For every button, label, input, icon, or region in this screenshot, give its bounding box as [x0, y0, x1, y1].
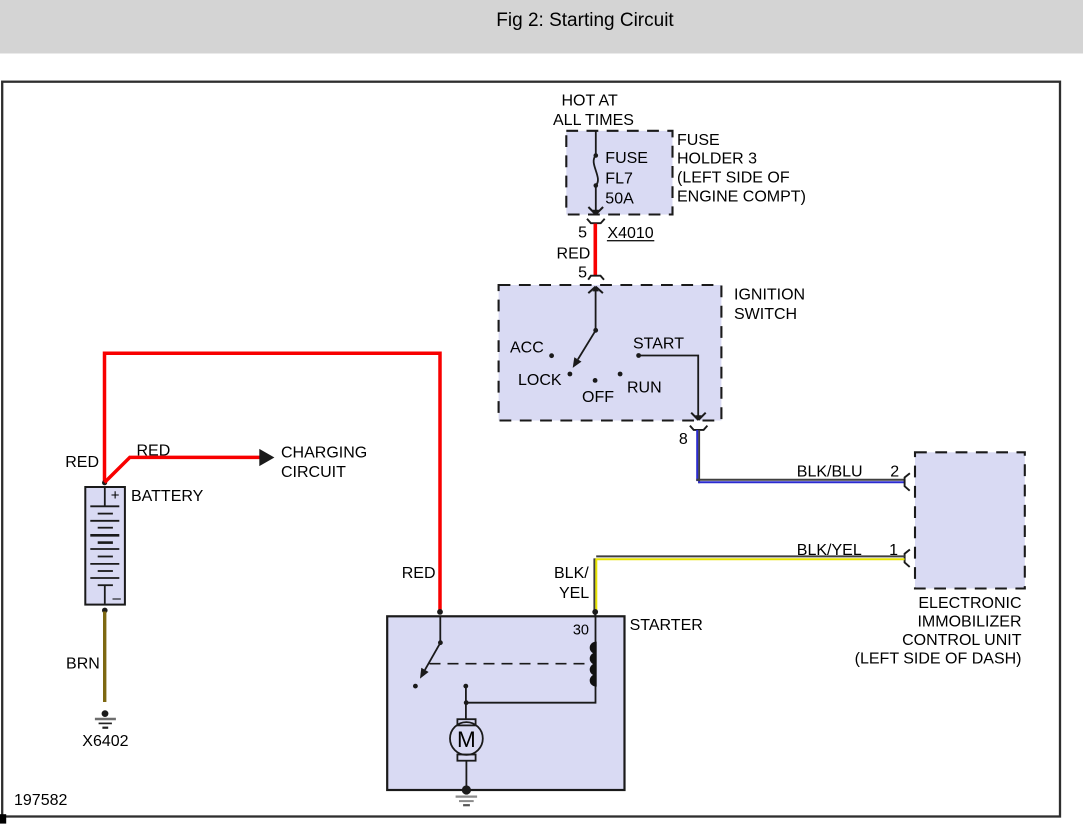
starter ground: [462, 785, 471, 794]
svg-text:ENGINE COMPT): ENGINE COMPT): [677, 188, 806, 205]
svg-text:8: 8: [679, 431, 688, 448]
wire contact to motor: [465, 686, 467, 719]
node ACC: [549, 353, 554, 358]
fuse holder 3 box: [566, 131, 672, 215]
relay fixed contact: [413, 684, 418, 689]
svg-text:HOT AT: HOT AT: [562, 93, 619, 110]
ground X6402: [102, 710, 109, 717]
svg-text:RED: RED: [557, 245, 591, 262]
motor M: [457, 719, 475, 725]
wire RED to charging circuit: [105, 457, 260, 482]
svg-text:X6402: X6402: [82, 733, 128, 750]
pin 1 cup: [905, 550, 910, 567]
svg-text:RED: RED: [65, 454, 99, 471]
svg-text:X4010: X4010: [607, 225, 653, 242]
connector X4010 cup: [587, 219, 605, 224]
svg-text:YEL: YEL: [559, 585, 589, 602]
charging circuit arrow: [259, 449, 274, 466]
svg-text:+: +: [111, 487, 120, 504]
svg-text:ELECTRONIC: ELECTRONIC: [918, 595, 1021, 612]
wire RED fuse to ignition: [593, 224, 597, 276]
node battery negative: [102, 608, 108, 614]
ignition input cup: [588, 276, 604, 280]
svg-text:HOLDER 3: HOLDER 3: [677, 151, 757, 168]
svg-text:M: M: [457, 727, 476, 752]
svg-text:BRN: BRN: [66, 656, 100, 673]
ignition input arrow: [588, 287, 603, 294]
svg-text:2: 2: [890, 464, 899, 481]
svg-text:–: –: [113, 590, 122, 607]
relay lever: [425, 643, 441, 670]
svg-text:5: 5: [578, 265, 587, 282]
svg-text:ALL TIMES: ALL TIMES: [553, 112, 634, 129]
svg-text:BATTERY: BATTERY: [131, 488, 204, 505]
node motor junction: [464, 700, 469, 705]
frame corner mark: [0, 814, 6, 823]
svg-text:(LEFT SIDE OF DASH): (LEFT SIDE OF DASH): [855, 650, 1022, 667]
svg-text:CHARGING: CHARGING: [281, 444, 367, 461]
svg-text:IGNITION: IGNITION: [734, 287, 805, 304]
node RUN: [618, 372, 623, 377]
svg-text:ACC: ACC: [510, 340, 544, 357]
wire RED battery loop: [105, 353, 441, 610]
svg-text:197582: 197582: [14, 792, 67, 809]
svg-text:(LEFT SIDE OF: (LEFT SIDE OF: [677, 170, 790, 187]
svg-text:BLK/BLU: BLK/BLU: [797, 464, 863, 481]
relay pivot: [438, 640, 443, 645]
wire coil to junction: [466, 617, 595, 703]
ignition lever arm: [578, 330, 596, 359]
svg-text:5: 5: [578, 225, 587, 242]
wire BLK/YEL: [594, 556, 904, 616]
pin 8 cup: [690, 426, 708, 430]
node starter yellow entry: [592, 609, 598, 615]
svg-text:SWITCH: SWITCH: [734, 306, 797, 323]
svg-text:RED: RED: [137, 443, 171, 460]
wire START to pin 8: [639, 356, 699, 418]
immobilizer box: [915, 452, 1025, 588]
title bar: [0, 0, 1083, 54]
relay linkage dashed: [430, 663, 588, 665]
solenoid coil: [590, 642, 596, 686]
svg-text:LOCK: LOCK: [518, 372, 562, 389]
node LOCK: [568, 372, 573, 377]
ignition switch box: [499, 285, 722, 421]
node battery positive junction: [102, 480, 107, 485]
fuse FL7 50A: [594, 131, 598, 213]
svg-text:STARTER: STARTER: [630, 617, 703, 634]
svg-text:FUSE: FUSE: [605, 150, 648, 167]
relay contact feed: [439, 617, 441, 642]
svg-text:Fig 2: Starting Circuit: Fig 2: Starting Circuit: [496, 10, 674, 31]
fuse output arrow: [588, 207, 603, 214]
starter box: [387, 616, 624, 790]
svg-text:CIRCUIT: CIRCUIT: [281, 464, 346, 481]
wire BRN: [103, 612, 106, 703]
svg-text:OFF: OFF: [582, 389, 614, 406]
wire motor to ground: [465, 761, 467, 790]
svg-text:30: 30: [573, 622, 589, 638]
node starter red entry: [437, 609, 443, 615]
node OFF: [593, 378, 598, 383]
ignition wiper line: [595, 287, 597, 330]
svg-text:50A: 50A: [605, 191, 634, 208]
ignition output arrow: [691, 413, 706, 420]
svg-text:IMMOBILIZER: IMMOBILIZER: [917, 613, 1021, 630]
battery BATTERY: [85, 487, 125, 605]
pin 2 cup: [905, 473, 910, 490]
svg-text:FL7: FL7: [605, 170, 633, 187]
relay output contact: [463, 684, 468, 689]
wire BLK/BLU: [696, 430, 904, 483]
svg-text:START: START: [633, 336, 684, 353]
svg-text:BLK/: BLK/: [554, 565, 589, 582]
svg-text:RUN: RUN: [627, 380, 662, 397]
node START: [636, 353, 641, 358]
svg-text:CONTROL UNIT: CONTROL UNIT: [902, 632, 1022, 649]
ignition pivot: [593, 328, 598, 333]
svg-text:FUSE: FUSE: [677, 132, 720, 149]
svg-text:RED: RED: [402, 565, 436, 582]
